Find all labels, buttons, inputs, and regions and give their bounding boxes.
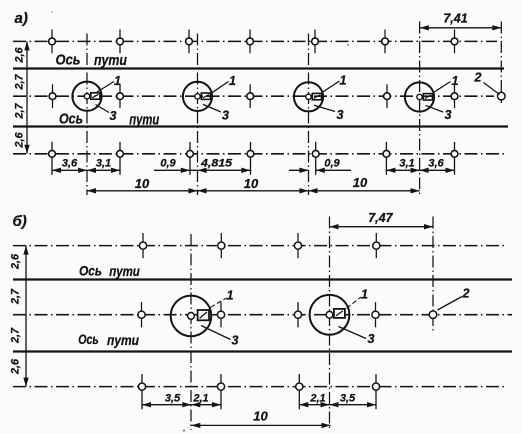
svg-text:3: 3: [232, 334, 239, 348]
svg-text:пути: пути: [129, 111, 159, 128]
svg-text:2,6: 2,6: [14, 132, 26, 149]
svg-text:2: 2: [462, 287, 470, 301]
svg-text:1: 1: [229, 74, 236, 88]
svg-text:2,7: 2,7: [14, 103, 26, 120]
svg-text:3: 3: [110, 109, 117, 123]
svg-text:2: 2: [474, 71, 482, 85]
svg-text:2,7: 2,7: [14, 74, 26, 91]
svg-text:7,47: 7,47: [368, 211, 393, 225]
svg-text:пути: пути: [107, 332, 139, 348]
svg-text:0,9: 0,9: [160, 157, 176, 169]
svg-text:Ось: Ось: [56, 52, 81, 69]
svg-text:2,6: 2,6: [14, 47, 26, 64]
svg-text:3: 3: [445, 108, 452, 122]
svg-text:3,6: 3,6: [428, 157, 444, 169]
svg-text:10: 10: [353, 175, 368, 190]
svg-text:2,6: 2,6: [10, 358, 22, 375]
svg-text:Ось: Ось: [59, 110, 83, 127]
svg-text:а): а): [15, 10, 28, 27]
svg-text:3,1: 3,1: [399, 157, 414, 169]
svg-text:2,7: 2,7: [10, 327, 22, 344]
svg-text:10: 10: [253, 409, 268, 424]
svg-text:2,7: 2,7: [10, 288, 22, 305]
svg-text:2,6: 2,6: [10, 253, 22, 270]
svg-text:1: 1: [452, 74, 459, 88]
svg-text:7,41: 7,41: [443, 11, 467, 25]
svg-text:1: 1: [340, 74, 347, 88]
svg-text:4,815: 4,815: [200, 157, 233, 169]
svg-text:2,1: 2,1: [309, 392, 325, 404]
svg-text:3,5: 3,5: [340, 393, 356, 405]
svg-text:3,1: 3,1: [96, 157, 111, 169]
svg-text:Ось: Ось: [79, 263, 102, 279]
svg-text:1: 1: [227, 289, 234, 303]
svg-text:3: 3: [222, 109, 229, 123]
svg-text:пути: пути: [94, 52, 127, 69]
svg-text:пути: пути: [109, 263, 140, 279]
svg-text:2,1: 2,1: [192, 392, 208, 404]
svg-text:3: 3: [368, 332, 375, 346]
svg-text:1: 1: [361, 288, 368, 302]
svg-text:б): б): [13, 213, 27, 230]
svg-text:10: 10: [244, 176, 259, 191]
svg-text:3,5: 3,5: [165, 392, 181, 404]
svg-text:10: 10: [135, 176, 150, 191]
svg-text:Ось: Ось: [78, 331, 99, 347]
svg-text:1: 1: [114, 74, 121, 88]
svg-text:3: 3: [337, 108, 344, 122]
svg-text:3,6: 3,6: [62, 157, 78, 169]
svg-text:0,9: 0,9: [324, 157, 340, 169]
